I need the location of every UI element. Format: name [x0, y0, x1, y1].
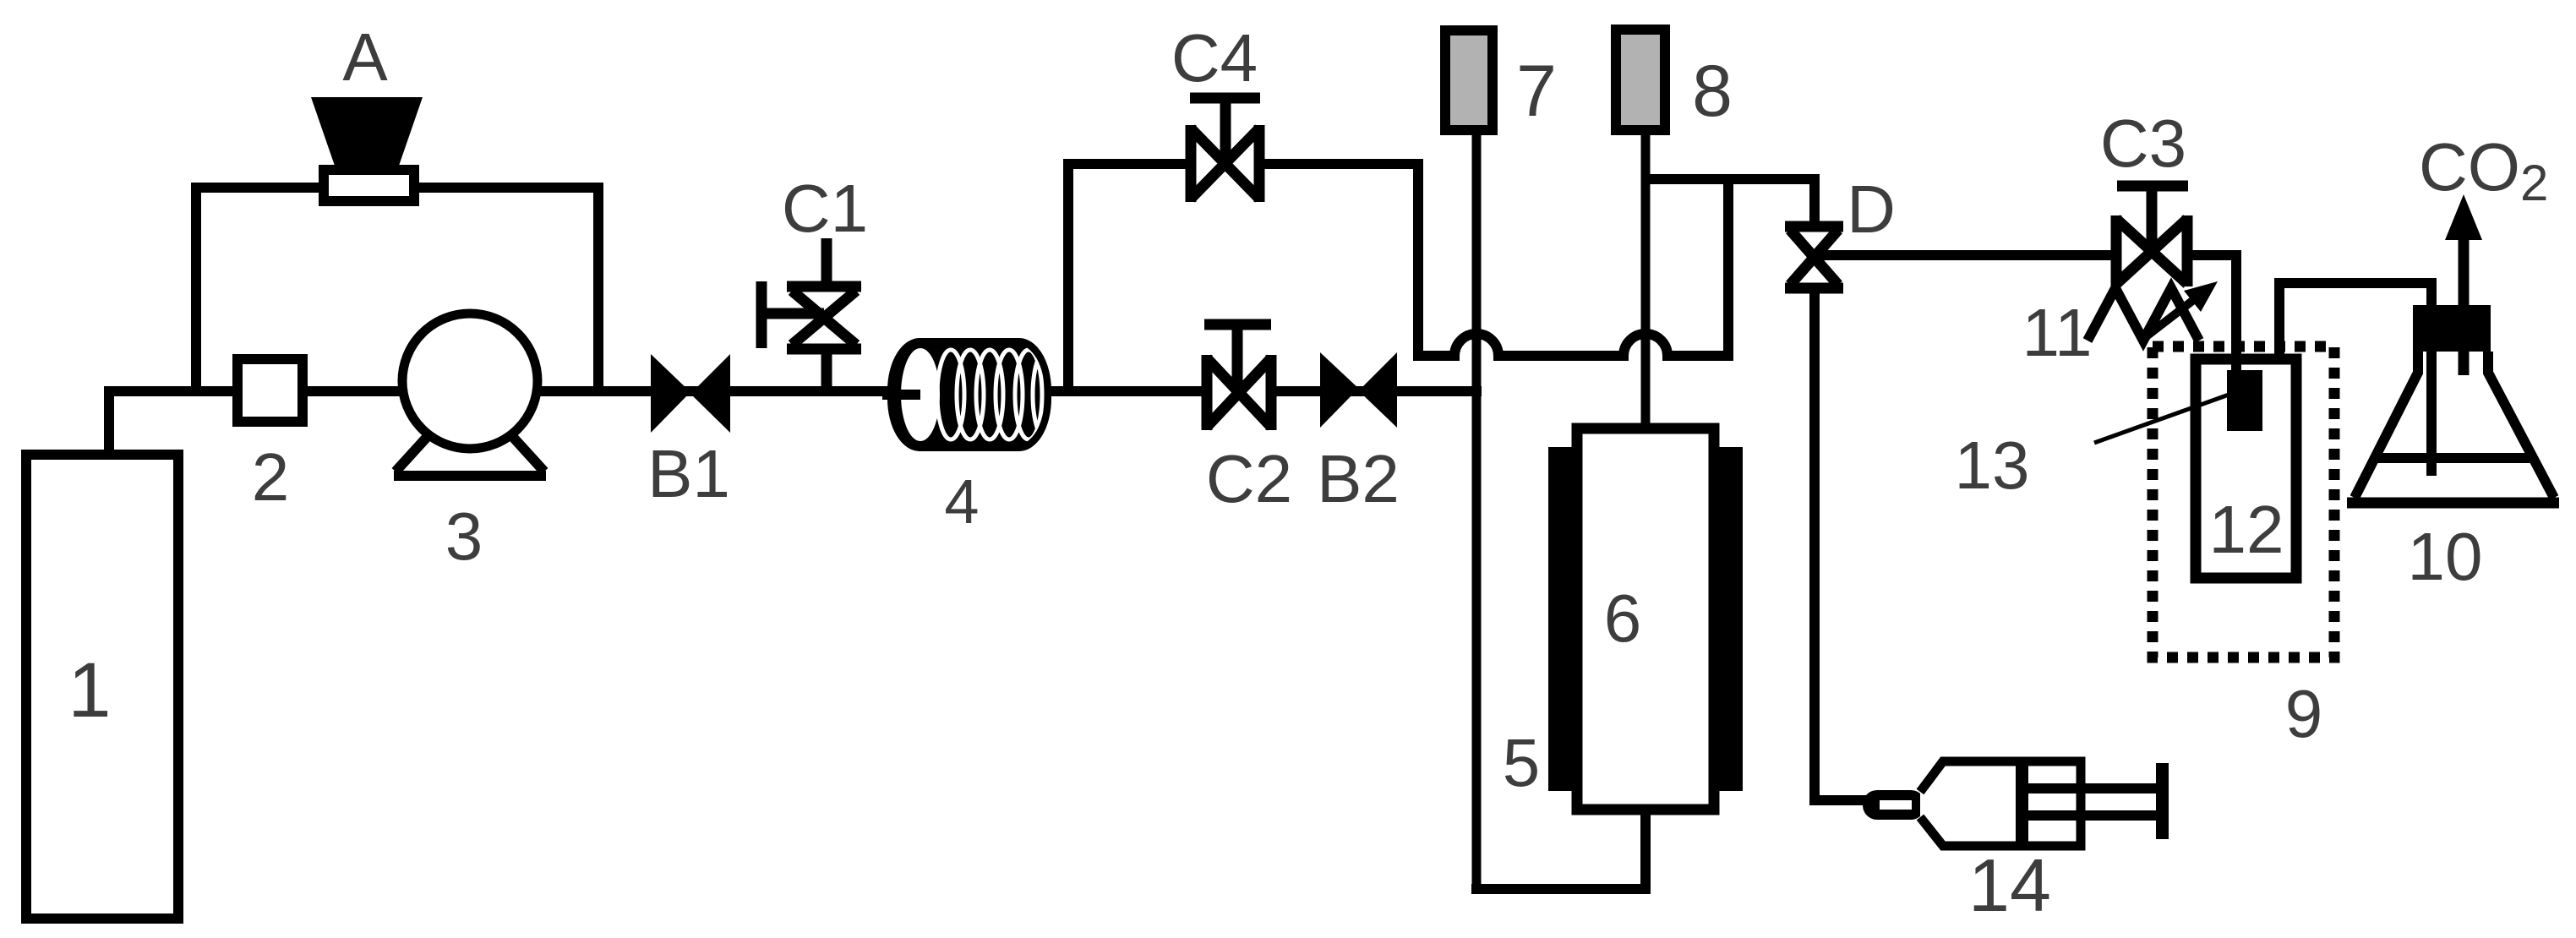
svg-text:1: 1: [68, 647, 111, 733]
flask 10: [2347, 352, 2559, 503]
wire bottom U pipe: [1471, 815, 1645, 889]
wire cylinder riser: [104, 386, 114, 456]
gauge 7: [1445, 30, 1493, 130]
svg-text:11: 11: [2022, 295, 2092, 370]
valve D: [1785, 226, 1843, 288]
heater bar left of vessel 6: [1548, 447, 1572, 791]
wire branch to valve D: [1645, 179, 1815, 228]
svg-text:B2: B2: [1317, 441, 1400, 516]
pump 3: [402, 314, 538, 449]
vessel 6: [1577, 428, 1714, 810]
syringe 14 plunger seal: [2016, 765, 2028, 843]
svg-text:8: 8: [1692, 51, 1733, 132]
svg-text:14: 14: [1968, 843, 2051, 927]
wire valve D to valve 11: [1819, 255, 2241, 375]
valve C1: [761, 238, 861, 396]
gauge 8: [1616, 30, 1665, 130]
valve 11 C3: [2116, 186, 2188, 286]
wire C4 bypass loop: [1068, 164, 1418, 396]
syringe 14 needle hub: [1863, 790, 1925, 820]
svg-text:5: 5: [1503, 725, 1541, 800]
trap vessel 12: [2196, 359, 2296, 578]
svg-text:6: 6: [1604, 581, 1642, 656]
svg-text:12: 12: [2209, 492, 2284, 567]
heater bar right of vessel 6: [1719, 447, 1743, 791]
svg-text:10: 10: [2408, 519, 2483, 594]
svg-text:C3: C3: [2100, 106, 2186, 181]
svg-text:3: 3: [445, 499, 483, 574]
wire below valve D: [1815, 286, 1869, 800]
pointer line 13: [2094, 394, 2231, 443]
wire gauge 7 stem: [1472, 135, 1482, 889]
flask 10 stopper: [2413, 305, 2491, 352]
svg-text:7: 7: [1516, 51, 1557, 132]
wire A bypass loop: [196, 188, 598, 396]
dotted enclosure 9: [2153, 346, 2334, 657]
svg-text:C4: C4: [1171, 20, 1258, 95]
svg-text:A: A: [342, 19, 388, 95]
valve B2: [1320, 352, 1397, 428]
wire stub into trap 12: [2231, 355, 2241, 376]
svg-text:D: D: [1847, 172, 1896, 247]
relief arrow of valve 11: [2144, 292, 2203, 338]
svg-text:B1: B1: [647, 436, 730, 511]
wire trap 12 to flask 10: [2279, 283, 2431, 476]
svg-text:4: 4: [944, 466, 979, 537]
cylinder 1: [26, 455, 178, 919]
damper A body: [324, 170, 414, 201]
damper A funnel: [311, 97, 423, 166]
valve B1: [651, 354, 730, 433]
svg-text:13: 13: [1955, 428, 2030, 503]
wire squiggle crossover line: [1413, 179, 1728, 356]
svg-text:C2: C2: [1206, 441, 1292, 516]
svg-text:2: 2: [252, 439, 290, 515]
valve C4: [1190, 98, 1260, 202]
relief spring of valve 11: [2088, 288, 2199, 341]
wire main line left: [104, 386, 1482, 396]
wire gauge 8 stem: [1641, 135, 1651, 428]
syringe 14 plunger rod: [2028, 783, 2161, 793]
sensor 13: [2227, 370, 2262, 431]
CO2 vent arrow: [2459, 237, 2470, 375]
svg-text:C1: C1: [782, 171, 868, 246]
svg-text:9: 9: [2285, 676, 2323, 751]
pump base 3: [394, 434, 546, 476]
coil 4: [882, 338, 1060, 451]
syringe 14 thumb rest: [2156, 763, 2169, 839]
syringe 14 barrel: [1920, 761, 2081, 846]
filter 2: [237, 359, 303, 422]
valve C2: [1204, 324, 1271, 430]
